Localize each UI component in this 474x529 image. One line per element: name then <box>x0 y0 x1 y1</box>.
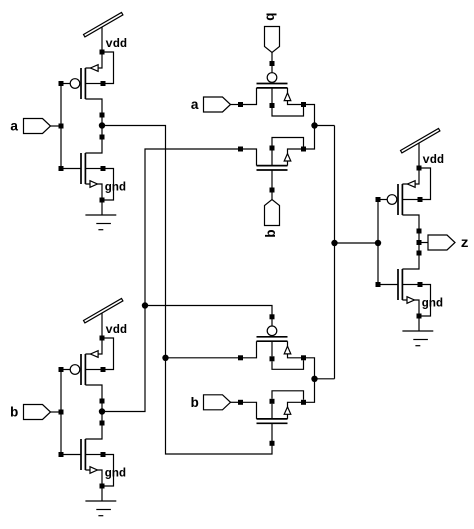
wire: column to U5 input bus <box>335 242 379 244</box>
pin b (TG1 pmos gate, vertical) <box>265 27 280 62</box>
ground symbol (U1) <box>85 203 116 230</box>
nmos U5.N (output inverter) <box>376 251 431 319</box>
wire: abar from U1 to mid column, down and to TG2 nmos gate <box>102 126 272 455</box>
pmos U3.P (pass gate, input a) <box>238 61 306 116</box>
wire: U2 output (drain-drain) <box>101 401 103 423</box>
vdd supply symbol (inverter U1) <box>84 13 123 50</box>
ground symbol (U5) <box>402 319 433 346</box>
pmos U2.P (inverter b) <box>59 336 114 404</box>
svg-text:vdd: vdd <box>106 323 128 337</box>
svg-text:b: b <box>10 406 18 422</box>
pmos U5.P (output inverter) <box>376 166 431 234</box>
wire: bbar tap to TG2 pmos gate <box>145 306 272 317</box>
svg-text:gnd: gnd <box>105 181 127 195</box>
wire: U5 output (drain-drain) <box>418 231 420 253</box>
ground symbol (U2) <box>85 489 116 516</box>
junction square: a input on U1 gate bus <box>59 124 64 129</box>
node abar: U1 output junction dot <box>99 122 105 128</box>
nmos U1.N (inverter a) <box>59 135 114 203</box>
nmos U3.N (pass gate, input bbar) <box>238 138 306 193</box>
junction dot: TG1 output <box>311 122 317 128</box>
svg-text:vdd: vdd <box>106 37 128 51</box>
svg-text:a: a <box>10 120 19 136</box>
junction dot: U5 input bus <box>375 240 381 246</box>
wire: U1 output (drain-drain) <box>101 115 103 137</box>
wire: TG2 outputs joined <box>304 358 315 403</box>
wire: U2 gate bus <box>60 370 62 455</box>
junction dot: column tap to U5 input <box>331 240 337 246</box>
svg-text:gnd: gnd <box>105 467 127 481</box>
vdd supply symbol (inverter U5) <box>401 129 440 166</box>
pmos U4.P (pass gate, input abar) <box>238 314 306 369</box>
pin a (input, U1) <box>24 119 59 134</box>
wire: abar tap to TG2 pmos left terminal <box>166 357 239 359</box>
pin b (input, U2) <box>24 405 59 420</box>
junction dot: TG2 output <box>311 376 317 382</box>
nmos U2.N (inverter b) <box>59 421 114 489</box>
junction square: z output node <box>417 240 422 245</box>
svg-text:z: z <box>461 236 469 252</box>
node bbar: U2 output junction dot <box>99 408 105 414</box>
junction dot: bbar tap to TG2 pmos gate <box>142 302 148 308</box>
pin z (output) <box>422 235 456 250</box>
svg-text:vdd: vdd <box>423 153 445 167</box>
wire: U1 gate bus <box>60 84 62 169</box>
pin b (input, TG2) <box>204 395 239 410</box>
pin bbar (TG1 nmos gate, vertical) <box>265 193 280 226</box>
junction square: b input on U2 gate bus <box>59 410 64 415</box>
svg-text:gnd: gnd <box>422 297 444 311</box>
svg-text:a: a <box>191 98 200 114</box>
vdd supply symbol (inverter U2) <box>84 299 123 336</box>
wire: U5 gate bus <box>377 200 379 285</box>
wire: TG2 output to z-input column <box>315 378 335 380</box>
svg-text:b: b <box>264 229 280 237</box>
wire: bbar from U2 up to TG1 nmos left terminal <box>102 149 238 412</box>
wire: column joining TG1 and TG2 outputs <box>334 126 336 379</box>
svg-text:b: b <box>262 13 278 21</box>
pin a (input, TG1) <box>204 97 239 112</box>
svg-text:b: b <box>191 396 199 412</box>
junction dot: abar tap to TG2 pmos source side <box>162 355 168 361</box>
pmos U1.P (inverter a) <box>59 50 114 118</box>
wire: TG1 outputs joined <box>304 105 315 150</box>
nmos U4.N (pass gate, input b) <box>238 391 306 446</box>
wire: TG1 output to z-input column <box>315 125 335 127</box>
